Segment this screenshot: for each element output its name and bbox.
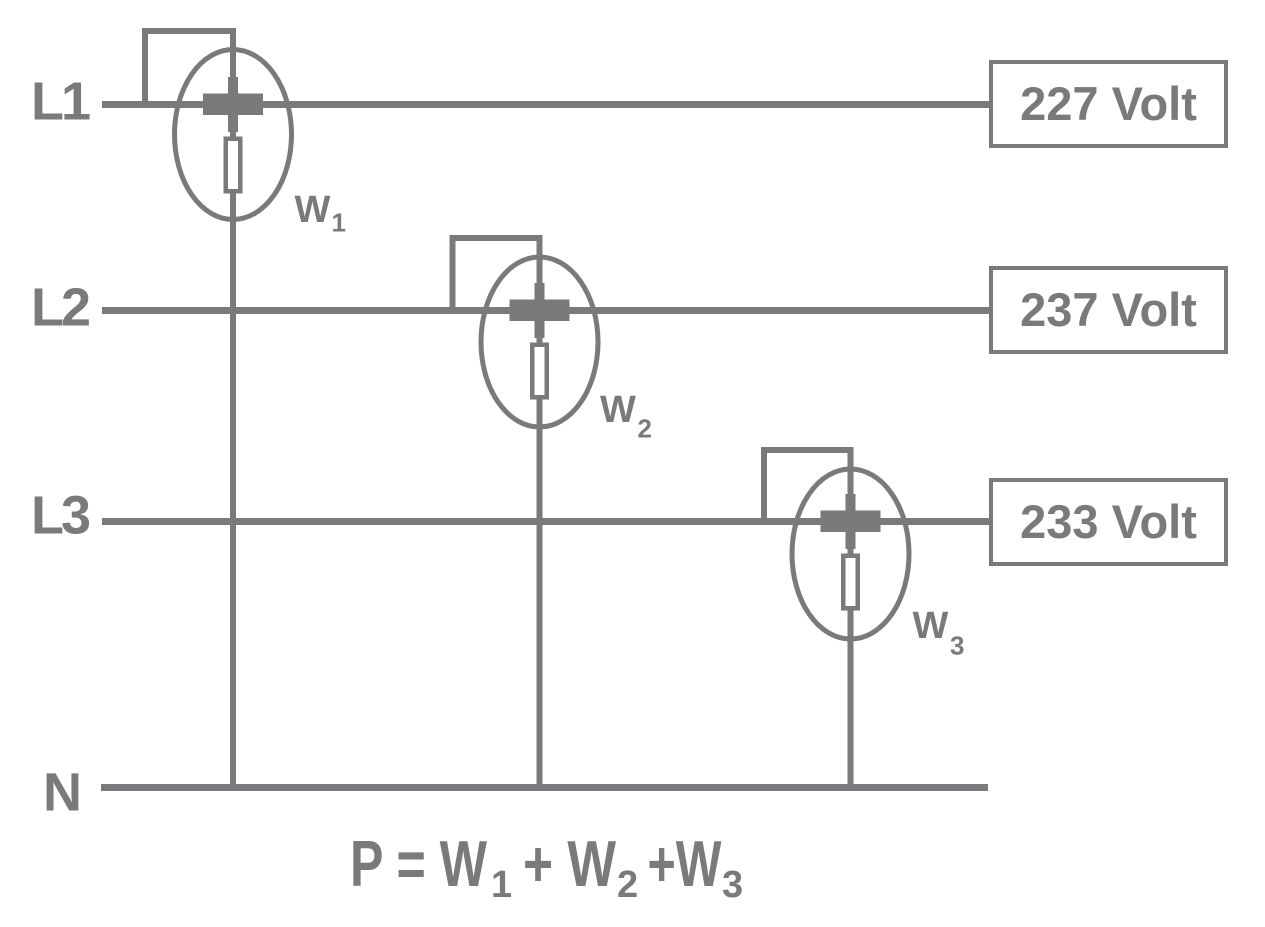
voltmeter box V1: [991, 62, 1226, 146]
svg-text:1: 1: [332, 208, 346, 238]
svg-text:L2: L2: [31, 278, 89, 338]
wattmeter W3 top lead wire: [848, 447, 854, 498]
wire L2 phase line: [102, 307, 989, 314]
wattmeter W1 case: [175, 50, 292, 220]
wattmeter W2 voltage-tap wire: [453, 238, 540, 313]
wattmeter W3 case: [792, 469, 909, 639]
wire L1 phase line: [102, 101, 989, 108]
svg-text:3: 3: [950, 631, 964, 661]
svg-text:L1: L1: [31, 72, 90, 132]
wattmeter W2 case: [481, 257, 598, 427]
svg-text:L3: L3: [31, 486, 90, 546]
label W2: [600, 389, 652, 444]
svg-text:P = W: P = W: [350, 827, 487, 900]
svg-text:227 Volt: 227 Volt: [1020, 77, 1197, 130]
svg-text:237 Volt: 237 Volt: [1020, 283, 1197, 336]
wattmeter W1 voltage coil resistor: [224, 137, 243, 194]
wattmeter W3 voltage coil resistor: [841, 554, 860, 611]
wire W3 down to N: [848, 548, 854, 791]
svg-text:+ W: + W: [523, 827, 617, 900]
voltmeter box V2: [991, 268, 1226, 352]
svg-text:W: W: [600, 389, 636, 431]
svg-text:233 Volt: 233 Volt: [1020, 495, 1197, 548]
wire W1 down to N: [230, 131, 236, 791]
formula P = W1 + W2 + W3: [350, 827, 743, 906]
svg-text:+W: +W: [648, 827, 722, 900]
wire L3 phase line: [102, 518, 989, 525]
label W1: [295, 189, 346, 238]
wattmeter W1 top lead wire: [230, 28, 236, 79]
wattmeter W3 current coil: [821, 494, 881, 549]
svg-text:2: 2: [617, 864, 638, 906]
label W3: [913, 605, 965, 661]
svg-text:1: 1: [491, 864, 512, 906]
svg-text:3: 3: [722, 864, 743, 906]
wattmeter W3 voltage-tap wire: [764, 450, 851, 524]
wire W2 down to N: [537, 337, 543, 791]
svg-text:N: N: [43, 763, 82, 823]
voltmeter box V3: [991, 480, 1226, 564]
svg-text:W: W: [295, 189, 331, 231]
wattmeter W1 current coil: [203, 77, 263, 132]
wattmeter W1 voltage-tap wire: [145, 31, 233, 107]
wire N neutral line: [101, 784, 988, 791]
svg-text:W: W: [913, 605, 949, 647]
wattmeter W2 top lead wire: [537, 235, 543, 286]
wattmeter W2 current coil: [510, 283, 570, 338]
wattmeter W2 voltage coil resistor: [530, 343, 549, 400]
svg-text:2: 2: [638, 414, 652, 444]
